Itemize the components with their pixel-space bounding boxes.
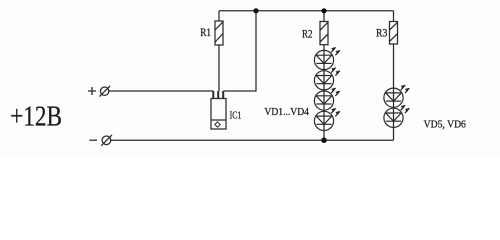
terminal minus bbox=[90, 135, 113, 146]
svg-text:R1: R1 bbox=[200, 27, 211, 39]
wire top rail bbox=[219, 10, 394, 12]
wire R3/VD5 column bbox=[393, 44, 395, 140]
wire R2 top lead bbox=[323, 11, 325, 22]
wire from top rail to IC1 right pin bbox=[223, 11, 256, 91]
wire plus input bbox=[109, 90, 214, 92]
resistor R2 bbox=[320, 22, 328, 45]
LED VD3 bbox=[314, 88, 339, 110]
resistor R3 bbox=[390, 22, 398, 45]
svg-text:R2: R2 bbox=[302, 28, 313, 40]
LED VD1 bbox=[314, 47, 339, 69]
LED VD2 bbox=[314, 68, 339, 90]
node junction dot bottom rail VD4 bbox=[321, 137, 327, 143]
node junction dot top rail to IC1 bbox=[253, 8, 258, 13]
svg-text:R3: R3 bbox=[376, 27, 388, 39]
terminal plus bbox=[88, 86, 110, 97]
wire bottom rail bbox=[111, 139, 394, 141]
svg-text:VD1...VD4: VD1...VD4 bbox=[264, 106, 309, 118]
svg-text:IC1: IC1 bbox=[230, 109, 242, 121]
resistor R1 bbox=[215, 21, 223, 45]
node junction dot top rail R2 bbox=[321, 8, 326, 13]
svg-text:VD5, VD6: VD5, VD6 bbox=[424, 118, 467, 130]
wire VD1-VD4 column bbox=[323, 45, 325, 141]
wire R1 top lead bbox=[218, 11, 220, 21]
svg-text:+12В: +12В bbox=[10, 101, 62, 132]
wire R3 top lead bbox=[393, 11, 395, 22]
wire R1 bottom lead bbox=[218, 45, 220, 91]
LED VD5 bbox=[384, 85, 409, 107]
LED VD4 bbox=[314, 108, 339, 130]
LED VD6 bbox=[384, 105, 409, 127]
regulator IC1 bbox=[211, 91, 226, 129]
